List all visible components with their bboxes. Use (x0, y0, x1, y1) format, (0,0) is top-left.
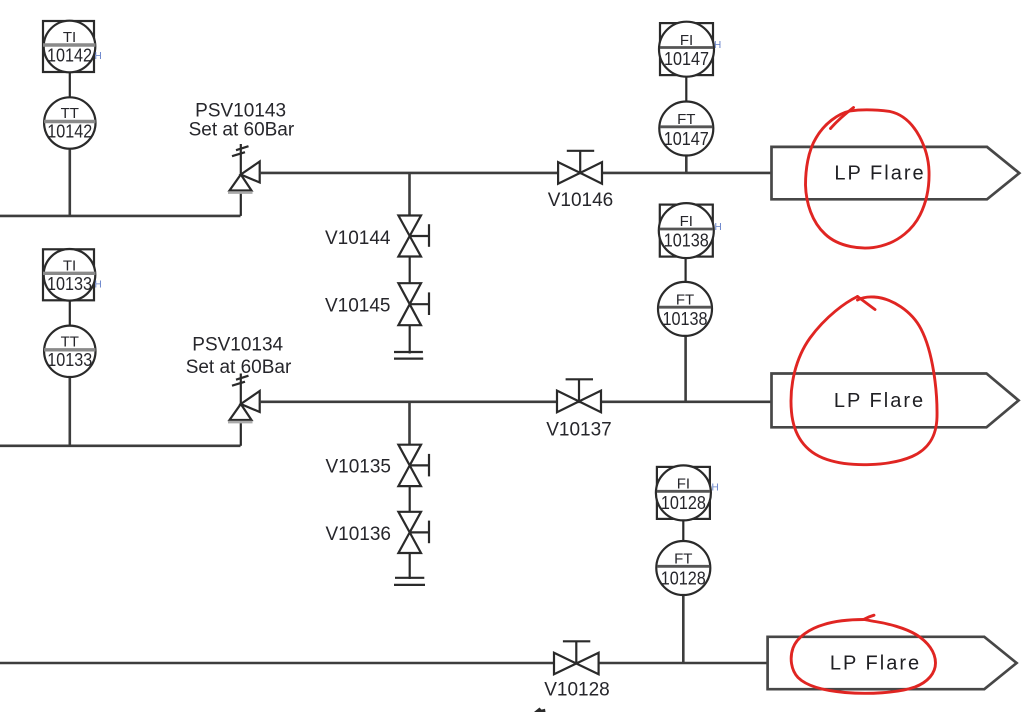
instrument FI10147 (659, 22, 714, 77)
svg-text:TT: TT (61, 334, 79, 351)
valve V10146 (558, 151, 602, 184)
pipe C (bottom header) (0, 662, 768, 665)
wire riser TT10142 to pipe A (69, 149, 72, 216)
svg-text:H: H (712, 483, 719, 494)
wire FI10147 to FT10147 (685, 76, 687, 103)
svg-text:10138: 10138 (664, 231, 709, 251)
instrument TT10142 (44, 97, 95, 148)
svg-text:FT: FT (674, 551, 692, 568)
off-page connector LP Flare 1 (772, 147, 1020, 199)
valve V10144 (398, 216, 429, 257)
svg-text:H: H (95, 279, 102, 290)
svg-text:TI: TI (63, 258, 76, 275)
svg-text:10138: 10138 (663, 309, 708, 329)
svg-text:LP Flare: LP Flare (834, 162, 925, 184)
valve V10137 (557, 379, 601, 412)
svg-text:LP Flare: LP Flare (830, 653, 921, 675)
wire V10136 to drain (409, 553, 411, 579)
wire riser FT10128 to pipe (682, 594, 685, 663)
pipe PSV10134 outlet to LP Flare (260, 400, 772, 403)
svg-text:LP Flare: LP Flare (834, 390, 925, 412)
svg-text:FT: FT (676, 292, 694, 309)
svg-text:V10146: V10146 (548, 190, 614, 211)
svg-text:V10145: V10145 (325, 296, 391, 317)
svg-text:H: H (715, 222, 722, 233)
instrument FI10138 (659, 203, 714, 258)
instrument TI10133 (43, 249, 96, 301)
svg-text:TI: TI (63, 29, 76, 46)
svg-text:Set at 60Bar: Set at 60Bar (186, 357, 292, 378)
instrument TI10142 (43, 21, 96, 73)
svg-text:10128: 10128 (661, 568, 706, 588)
wire branch down to V10144 (408, 173, 411, 216)
drain symbol below V10145 (394, 352, 423, 359)
svg-text:PSV10134: PSV10134 (192, 335, 283, 356)
wire branch down to V10135 (408, 402, 411, 445)
wire V10135 to V10136 (409, 486, 411, 512)
annotation red circle 2 tail (858, 297, 876, 310)
svg-text:10133: 10133 (47, 350, 92, 370)
annotation red circle 2 (791, 297, 937, 465)
svg-text:10128: 10128 (661, 493, 706, 513)
svg-text:V10128: V10128 (544, 680, 610, 701)
valve V10145 (398, 283, 429, 325)
relief valve PSV10143 (228, 144, 260, 216)
off-page connector LP Flare 2 (772, 374, 1019, 428)
wire riser FT10138 to pipe (684, 334, 687, 402)
off-page connector LP Flare 3 (768, 637, 1017, 689)
svg-text:10147: 10147 (664, 129, 709, 149)
valve V10128 (554, 641, 599, 674)
instrument FT10147 (659, 102, 713, 156)
svg-text:Set at 60Bar: Set at 60Bar (189, 120, 295, 141)
svg-text:H: H (95, 51, 102, 62)
wire TI10142 to TT10142 (69, 73, 71, 98)
instrument FT10138 (658, 282, 712, 336)
relief valve PSV10134 (228, 374, 260, 446)
svg-text:FI: FI (680, 213, 693, 230)
wire V10144 to V10145 (409, 257, 411, 284)
annotation red circle 3 (791, 620, 935, 694)
svg-text:10142: 10142 (47, 46, 92, 66)
svg-text:FT: FT (677, 111, 695, 128)
svg-text:V10137: V10137 (546, 420, 612, 441)
svg-text:10133: 10133 (47, 274, 92, 294)
instrument TT10133 (44, 326, 95, 377)
wire riser TT10133 to pipe B (69, 377, 72, 446)
pipe A (inlet header top) (0, 215, 241, 218)
svg-text:FI: FI (677, 476, 690, 493)
annotation red circle 1 (806, 110, 930, 248)
annotation red circle 1 tail (831, 108, 854, 129)
pipe B (inlet header middle) (0, 444, 241, 447)
cursor arrow bottom (534, 708, 546, 712)
svg-text:FI: FI (680, 32, 693, 49)
annotation red circle 3 tail (864, 615, 875, 619)
svg-text:10147: 10147 (664, 49, 709, 69)
svg-text:H: H (714, 40, 721, 51)
pipe PSV10143 outlet to LP Flare (260, 172, 772, 175)
wire TI10133 to TT10133 (69, 301, 71, 326)
svg-text:V10136: V10136 (325, 524, 391, 545)
valve V10135 (398, 445, 429, 486)
wire riser FT10147 to pipe (685, 155, 688, 173)
instrument FT10128 (656, 541, 710, 595)
wire FI10128 to FT10128 (682, 520, 684, 543)
svg-text:PSV10143: PSV10143 (195, 100, 286, 121)
svg-text:V10144: V10144 (325, 228, 391, 249)
svg-text:10142: 10142 (47, 122, 92, 142)
valve V10136 (398, 512, 429, 553)
wire V10145 to drain (409, 325, 411, 353)
instrument FI10128 (656, 465, 711, 520)
svg-text:V10135: V10135 (325, 456, 391, 477)
drain symbol below V10136 (394, 578, 425, 585)
wire FI10138 to FT10138 (684, 257, 686, 284)
svg-text:TT: TT (61, 105, 79, 122)
